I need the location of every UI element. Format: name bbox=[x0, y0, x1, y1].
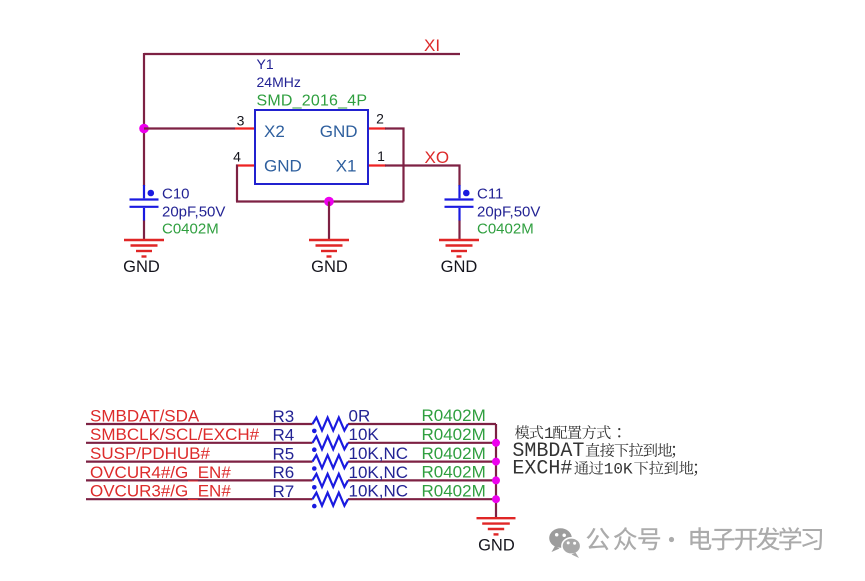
annotation note line 2: SMBDAT pulled to ground bbox=[512, 440, 675, 463]
svg-text:R0402M: R0402M bbox=[422, 463, 486, 482]
svg-text:3: 3 bbox=[237, 113, 245, 129]
capacitor C10 bbox=[130, 185, 159, 221]
svg-text:R0402M: R0402M bbox=[422, 481, 486, 500]
svg-text:4: 4 bbox=[233, 149, 241, 165]
svg-text:EXCH#: EXCH# bbox=[512, 458, 572, 481]
svg-text:R0402M: R0402M bbox=[422, 444, 486, 463]
ground (crystal) bbox=[309, 240, 349, 257]
wire: XI net horizontal bbox=[144, 53, 460, 55]
wire: pull-down bus to ground bbox=[495, 424, 497, 518]
svg-text:C11: C11 bbox=[477, 186, 503, 203]
ground (C11) bbox=[439, 240, 479, 257]
wire: ground rail stem bbox=[328, 202, 330, 240]
wire: bottom ground rail bbox=[236, 200, 404, 202]
svg-text:10K,NC: 10K,NC bbox=[349, 482, 409, 501]
node: ground rail junction bbox=[324, 197, 334, 207]
resistor R3 bbox=[313, 418, 349, 431]
watermark WeChat icon bbox=[549, 528, 580, 558]
svg-text:GND: GND bbox=[441, 258, 478, 276]
svg-text:R7: R7 bbox=[273, 482, 295, 501]
wire: junction to pin 3 bbox=[144, 127, 235, 129]
crystal Y1 pin 1 stub bbox=[368, 164, 386, 166]
svg-text:SMD_2016_4P: SMD_2016_4P bbox=[257, 93, 368, 110]
svg-text:C0402M: C0402M bbox=[477, 221, 534, 238]
svg-text:X2: X2 bbox=[264, 122, 285, 141]
wire: OVCUR3#/G_EN# net bbox=[86, 498, 313, 500]
wire: SMBCLK/SCL/EXCH# net bbox=[86, 442, 313, 444]
svg-text:R6: R6 bbox=[273, 463, 295, 482]
svg-text:GND: GND bbox=[264, 157, 302, 176]
svg-text:24MHz: 24MHz bbox=[257, 74, 301, 90]
svg-text:OVCUR4#/G_EN#: OVCUR4#/G_EN# bbox=[90, 463, 231, 482]
svg-text:GND: GND bbox=[478, 537, 515, 555]
wire: pin 4 down to ground rail bbox=[236, 165, 238, 202]
watermark text bbox=[587, 527, 823, 550]
svg-text:R4: R4 bbox=[273, 426, 295, 445]
node: bus junction bbox=[492, 476, 500, 484]
svg-text:SMBCLK/SCL/EXCH#: SMBCLK/SCL/EXCH# bbox=[90, 425, 260, 444]
resistor R4 bbox=[313, 436, 349, 449]
svg-text:20pF,50V: 20pF,50V bbox=[162, 204, 225, 221]
svg-text:XO: XO bbox=[425, 148, 450, 167]
crystal U Y1 body bbox=[255, 110, 368, 184]
svg-text:C0402M: C0402M bbox=[162, 221, 219, 238]
svg-text:OVCUR3#/G_EN#: OVCUR3#/G_EN# bbox=[90, 482, 231, 501]
node: bus junction bbox=[492, 458, 500, 466]
ground (C10) bbox=[124, 240, 164, 257]
ground (bus) bbox=[477, 518, 516, 534]
crystal Y1 pin 4 stub bbox=[236, 164, 255, 166]
crystal Y1 pin 2 stub bbox=[368, 127, 386, 129]
resistor R5 bbox=[313, 455, 349, 468]
svg-text:SUSP/PDHUB#: SUSP/PDHUB# bbox=[90, 444, 211, 463]
svg-text:R0402M: R0402M bbox=[422, 406, 486, 425]
annotation note line 3: EXCH# via 10K to ground bbox=[512, 458, 697, 481]
wire: pin 1 to XO and down to C11 bbox=[385, 166, 460, 187]
svg-text:0R: 0R bbox=[349, 406, 371, 425]
svg-text:R3: R3 bbox=[273, 407, 295, 426]
wire: pin 2 to right then down to ground rail bbox=[385, 129, 404, 202]
svg-text:2: 2 bbox=[376, 111, 384, 127]
wire: SUSP/PDHUB# net bbox=[86, 461, 313, 463]
resistor R7 bbox=[313, 493, 349, 506]
svg-text:1: 1 bbox=[377, 148, 385, 164]
wire: SMBDAT/SDA net bbox=[86, 423, 313, 425]
resistor R6 bbox=[313, 474, 349, 487]
svg-text:XI: XI bbox=[424, 36, 440, 55]
svg-text:20pF,50V: 20pF,50V bbox=[477, 204, 540, 221]
svg-text:10K,NC: 10K,NC bbox=[349, 463, 409, 482]
wire: C10 to ground bbox=[143, 221, 145, 240]
svg-text:10K,NC: 10K,NC bbox=[349, 444, 409, 463]
svg-text:10K: 10K bbox=[604, 461, 633, 479]
svg-text:R5: R5 bbox=[273, 444, 295, 463]
svg-text:X1: X1 bbox=[336, 157, 357, 176]
crystal Y1 pin 3 stub bbox=[235, 127, 255, 129]
svg-text:SMBDAT/SDA: SMBDAT/SDA bbox=[90, 406, 200, 425]
node: junction at X2 branch bbox=[139, 124, 149, 134]
svg-text:GND: GND bbox=[320, 122, 358, 141]
capacitor C11 bbox=[445, 185, 474, 221]
wire: OVCUR4#/G_EN# net bbox=[86, 479, 313, 481]
wire: C11 to ground bbox=[458, 221, 460, 240]
node: bus junction bbox=[492, 439, 500, 447]
wire: left vertical from XI to C10 bbox=[143, 53, 145, 186]
annotation note line 1: mode 1 config bbox=[515, 425, 620, 443]
svg-text:10K: 10K bbox=[349, 425, 380, 444]
svg-text:GND: GND bbox=[311, 258, 348, 276]
svg-text:Y1: Y1 bbox=[257, 56, 274, 72]
svg-text:GND: GND bbox=[123, 258, 160, 276]
svg-text:R0402M: R0402M bbox=[422, 425, 486, 444]
svg-text:C10: C10 bbox=[162, 186, 190, 203]
node: bus junction bbox=[492, 495, 500, 503]
